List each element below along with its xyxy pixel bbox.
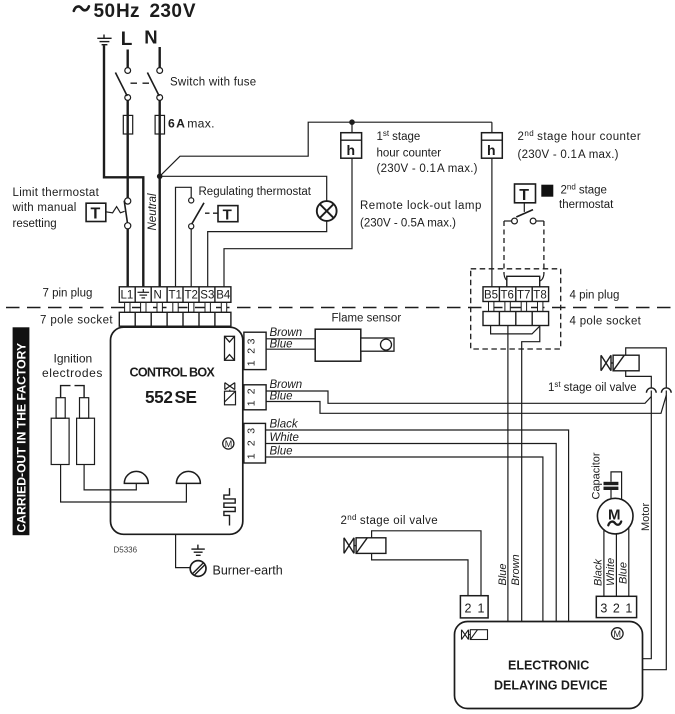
wire neutral to lock-out lamp: [160, 176, 327, 201]
capacitor C1: [604, 472, 622, 500]
motor M1: [597, 498, 633, 534]
svg-text:L: L: [121, 29, 133, 50]
svg-text:Remote lock-out lamp: Remote lock-out lamp: [360, 200, 482, 212]
wire flame sensor brown: [266, 338, 315, 340]
wire regulating thermostat to T2: [190, 229, 192, 287]
svg-text:(230V - 0.1: (230V - 0.1: [377, 163, 437, 175]
wire valve bottom to left hook: [626, 371, 652, 388]
wire h2 to B5: [491, 158, 493, 287]
main dashed separation line: [6, 307, 675, 309]
svg-text:resetting: resetting: [13, 218, 57, 230]
burner earth wire: [176, 534, 191, 567]
svg-text:Black: Black: [593, 559, 605, 586]
limit thermostat T box: [86, 203, 106, 222]
mains label ~50Hz 230V: [74, 1, 196, 22]
svg-text:4 pole socket: 4 pole socket: [570, 316, 642, 328]
svg-text:h: h: [347, 142, 356, 158]
wire 2nd valve top to pin 1: [372, 531, 481, 596]
svg-text:electrodes: electrodes: [42, 366, 103, 380]
svg-text:N: N: [144, 27, 157, 48]
svg-text:2: 2: [246, 388, 258, 394]
svg-text:B4: B4: [216, 290, 231, 302]
svg-text:Blue: Blue: [497, 563, 509, 585]
wire left hook down to delaying device: [643, 391, 652, 659]
label remote lock-out lamp: [360, 200, 482, 230]
svg-text:1: 1: [625, 602, 632, 616]
wire electrode E1 to spark gap 2: [61, 465, 187, 503]
label 1st stage hour counter: [377, 129, 478, 175]
factory banner CARRIED-OUT IN THE FACTORY: [13, 327, 30, 535]
svg-text:thermostat: thermostat: [559, 199, 614, 211]
svg-text:Ignition: Ignition: [54, 352, 93, 366]
svg-text:T8: T8: [533, 290, 546, 302]
svg-text:Blue: Blue: [270, 446, 293, 458]
svg-text:N: N: [154, 290, 162, 302]
1st stage oil valve symbol: [601, 355, 639, 371]
svg-text:1: 1: [478, 602, 485, 616]
svg-text:2: 2: [246, 348, 258, 354]
wire 2nd valve bottom to pin 2: [372, 553, 468, 595]
wire motor black: [603, 530, 605, 596]
svg-text:h: h: [487, 142, 496, 158]
svg-text:T: T: [519, 187, 529, 204]
dashed leads 2nd stage thermostat: [504, 221, 544, 274]
wire blue to 1st stage valve: [266, 395, 666, 413]
svg-text:CONTROL BOX: CONTROL BOX: [130, 365, 216, 379]
connector plug 3 (motor wires): [244, 423, 266, 463]
wire blue to delaying device: [266, 457, 543, 622]
wire T8 brown to delaying device: [522, 326, 540, 621]
2nd stage thermostat switch: [504, 203, 544, 224]
svg-text:Brown: Brown: [270, 379, 303, 391]
internal motor symbol: [223, 438, 234, 449]
regulating thermostat T box: [218, 206, 238, 224]
hook connector left: [646, 388, 656, 393]
svg-text:Blue: Blue: [618, 562, 630, 584]
svg-text:S3: S3: [200, 290, 214, 302]
2nd stage oil valve symbol: [344, 538, 386, 554]
node hour counter tap: [349, 119, 355, 125]
dashed box around 4 pin plug: [471, 269, 561, 349]
node neutral junction: [157, 174, 163, 180]
wire limit thermostat to L1: [126, 229, 128, 287]
wire electrode E2 to spark gap 1: [84, 465, 136, 490]
svg-text:(230V - 0.1: (230V - 0.1: [518, 149, 578, 161]
electrode cable brackets: [61, 386, 85, 398]
svg-text:2: 2: [613, 602, 620, 616]
4 pole socket hood: [491, 326, 540, 334]
svg-text:3: 3: [600, 602, 607, 616]
switch with fuse : L pole: [115, 68, 130, 101]
label electronic delaying device: [494, 659, 607, 693]
wire flame sensor blue: [266, 348, 315, 350]
hook connector right: [661, 388, 671, 393]
svg-text:T: T: [91, 206, 101, 223]
spark gap dome 1: [124, 471, 149, 483]
connector 3-2-1 (motor plug): [596, 596, 636, 617]
svg-text:7 pin plug: 7 pin plug: [43, 288, 93, 300]
wire N neutral node down to plug: [158, 176, 160, 286]
svg-text:CARRIED-OUT IN THE FACTORY: CARRIED-OUT IN THE FACTORY: [15, 343, 29, 533]
label ignition electrodes: [42, 352, 103, 381]
svg-text:3: 3: [246, 338, 258, 344]
svg-text:ELECTRONIC: ELECTRONIC: [508, 659, 589, 673]
svg-text:A max.): A max.): [437, 163, 478, 175]
svg-text:DELAYING DEVICE: DELAYING DEVICE: [494, 679, 607, 693]
svg-text:Brown: Brown: [510, 554, 522, 585]
limit thermostat switch: [124, 198, 131, 229]
2nd stage thermostat T box: [515, 184, 536, 204]
burner earth symbol: [190, 545, 206, 577]
svg-text:Flame sensor: Flame sensor: [332, 313, 402, 325]
svg-text:White: White: [605, 558, 617, 586]
wire N upper: [158, 47, 160, 68]
wire earth from symbol down to 7-pin plug: [104, 45, 143, 287]
wire white to delaying device: [266, 444, 557, 622]
svg-text:6Amax.: 6Amax.: [168, 117, 215, 131]
wire right hook down to delaying device: [643, 391, 667, 670]
internal igniter heater symbol: [224, 488, 235, 525]
label 2nd stage hour counter: [518, 129, 642, 161]
wire L fuse to limit thermostat: [126, 134, 128, 198]
wire lamp to S3: [208, 221, 327, 287]
svg-text:D5336: D5336: [114, 546, 138, 555]
wire L between switch and fuse: [126, 100, 128, 115]
ignition electrode E1: [51, 398, 69, 465]
hour counter U1 (1st stage): [341, 122, 362, 158]
wire N fuse to neutral node: [158, 134, 160, 176]
wire h1 to B4: [224, 158, 352, 287]
connector plug 1 (flame sensor): [244, 332, 266, 369]
svg-text:Switch with fuse: Switch with fuse: [170, 77, 256, 89]
thermostat lead hooks: [504, 274, 544, 282]
svg-text:B5: B5: [484, 290, 498, 302]
svg-text:L1: L1: [121, 290, 134, 302]
svg-text:Brown: Brown: [270, 327, 303, 339]
wire motor blue: [628, 528, 630, 597]
svg-text:Limit thermostat: Limit thermostat: [13, 187, 100, 199]
svg-text:1: 1: [246, 453, 258, 459]
7 pin plug: [119, 287, 231, 313]
svg-text:Neutral: Neutral: [147, 193, 159, 231]
4 pole socket: [483, 312, 549, 326]
flame sensor cell: [361, 338, 394, 351]
connector plug 2 (oil valve wires): [244, 385, 266, 410]
svg-text:T: T: [223, 207, 232, 224]
regulating thermostat link dashes: [205, 212, 218, 214]
svg-text:552SE: 552SE: [145, 387, 197, 407]
svg-text:with manual: with manual: [12, 202, 77, 214]
svg-text:4 pin plug: 4 pin plug: [570, 290, 620, 302]
svg-text:1: 1: [246, 360, 258, 366]
connector 2-1 (2nd valve plug): [460, 596, 488, 618]
wire L upper: [126, 50, 128, 68]
svg-text:Blue: Blue: [270, 391, 293, 403]
7 pole socket: [119, 312, 231, 326]
svg-text:hour counter: hour counter: [377, 148, 442, 160]
wire valve top to right hook: [626, 348, 667, 388]
svg-text:2: 2: [465, 602, 472, 616]
regulating thermostat switch: [189, 198, 204, 229]
remote lock-out lamp: [317, 201, 337, 221]
wire motor white: [615, 534, 617, 596]
ignition transformer symbol: [225, 336, 235, 360]
wire T1 to regulating thermostat: [176, 187, 192, 286]
svg-text:M: M: [225, 439, 233, 449]
electronic delaying device U4: [455, 622, 643, 709]
svg-text:7 pole socket: 7 pole socket: [40, 315, 113, 327]
svg-text:M: M: [614, 629, 622, 639]
svg-text:Regulating thermostat: Regulating thermostat: [199, 186, 312, 198]
fuse F2 (N): [155, 115, 164, 134]
svg-text:3: 3: [246, 428, 258, 434]
control box U3 outline: [111, 327, 243, 534]
wire neutral feed to hour counters: [160, 122, 492, 176]
svg-text:T2: T2: [185, 290, 198, 302]
svg-text:Black: Black: [270, 419, 299, 431]
svg-text:Motor: Motor: [640, 503, 652, 531]
ignition electrode E2: [77, 398, 95, 465]
svg-text:Capacitor: Capacitor: [591, 452, 603, 499]
wire T6 blue to delaying device: [507, 326, 509, 622]
svg-text:T1: T1: [169, 290, 182, 302]
device internal valve icon: [462, 630, 488, 640]
flame sensor body: [315, 329, 361, 361]
switch with fuse : N pole: [147, 68, 162, 101]
svg-text:A max.): A max.): [417, 218, 456, 230]
wire N between switch and fuse: [158, 100, 160, 115]
label 2nd stage thermostat: [541, 183, 614, 212]
limit thermostat label: [12, 187, 100, 230]
mains earth symbol: [97, 35, 111, 45]
svg-text:T6: T6: [501, 290, 514, 302]
svg-text:T7: T7: [517, 290, 530, 302]
svg-text:White: White: [270, 432, 299, 444]
hour counter U2 (2nd stage): [482, 122, 503, 158]
svg-text:2: 2: [246, 440, 258, 446]
spark gap dome 2: [176, 471, 201, 483]
4 pin plug: [483, 287, 549, 312]
wire brown to 1st stage valve: [266, 391, 651, 403]
limit thermostat reset link: [106, 207, 125, 213]
svg-text:A max.): A max.): [578, 149, 619, 161]
switch mechanical link dashes: [131, 82, 152, 84]
svg-text:1: 1: [246, 400, 258, 406]
svg-text:(230V - 0.5: (230V - 0.5: [360, 218, 417, 230]
internal oil valve symbol: [225, 383, 236, 405]
device internal motor icon: [612, 628, 624, 640]
wire black to delaying device: [266, 430, 569, 622]
svg-text:Burner-earth: Burner-earth: [213, 564, 283, 578]
bridge T6-T7: [507, 276, 540, 287]
fuse F1 (L): [123, 115, 132, 134]
